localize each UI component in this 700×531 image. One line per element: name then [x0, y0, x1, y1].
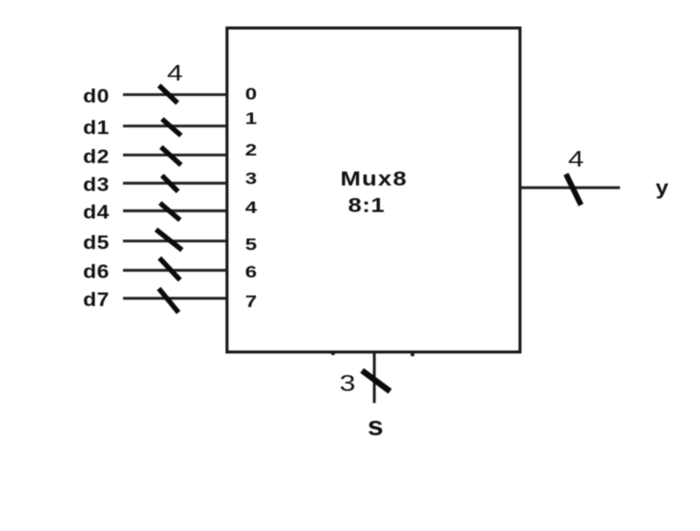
wire y output: [521, 186, 620, 189]
bus slash y: [566, 174, 581, 205]
svg-text:3: 3: [245, 170, 257, 189]
svg-text:y: y: [656, 176, 669, 199]
svg-text:d4: d4: [83, 202, 110, 223]
svg-text:4: 4: [167, 62, 183, 86]
svg-text:d1: d1: [83, 117, 110, 138]
svg-text:8:1: 8:1: [348, 194, 385, 216]
bus slash d6: [160, 258, 181, 280]
svg-text:0: 0: [245, 86, 257, 105]
svg-text:d6: d6: [83, 261, 110, 282]
wire d3: [123, 182, 226, 185]
svg-text:d0: d0: [83, 86, 110, 107]
svg-text:4: 4: [568, 148, 584, 172]
svg-text:d5: d5: [83, 232, 110, 253]
bus slash d4: [160, 203, 180, 220]
tick mark left on bottom edge: [331, 352, 335, 355]
bus slash d1: [162, 119, 181, 136]
wire d0: [123, 93, 226, 96]
svg-text:4: 4: [245, 199, 257, 218]
bus slash d5: [156, 230, 182, 251]
bus slash d0: [159, 86, 178, 104]
tick mark right on bottom edge: [411, 352, 415, 356]
wire d4: [123, 209, 226, 212]
svg-text:7: 7: [245, 293, 257, 312]
bus slash d2: [161, 147, 181, 165]
wire d5: [123, 240, 226, 243]
svg-text:d7: d7: [83, 289, 110, 310]
svg-text:2: 2: [245, 142, 257, 161]
mux U1 body: [227, 28, 520, 352]
svg-text:s: s: [368, 411, 384, 440]
bus slash d3: [162, 176, 178, 192]
svg-text:3: 3: [340, 370, 356, 397]
bus slash s: [362, 371, 390, 392]
wire d7: [123, 297, 226, 300]
wire d6: [123, 269, 226, 272]
svg-text:d3: d3: [83, 174, 110, 195]
svg-text:6: 6: [245, 264, 257, 283]
svg-text:1: 1: [245, 110, 257, 129]
svg-text:d2: d2: [83, 146, 110, 167]
svg-text:Mux8: Mux8: [340, 168, 407, 190]
wire d1: [123, 125, 226, 128]
svg-text:5: 5: [245, 236, 257, 255]
bus slash d7: [159, 289, 179, 313]
wire d2: [123, 154, 226, 157]
wire s select: [373, 352, 376, 403]
